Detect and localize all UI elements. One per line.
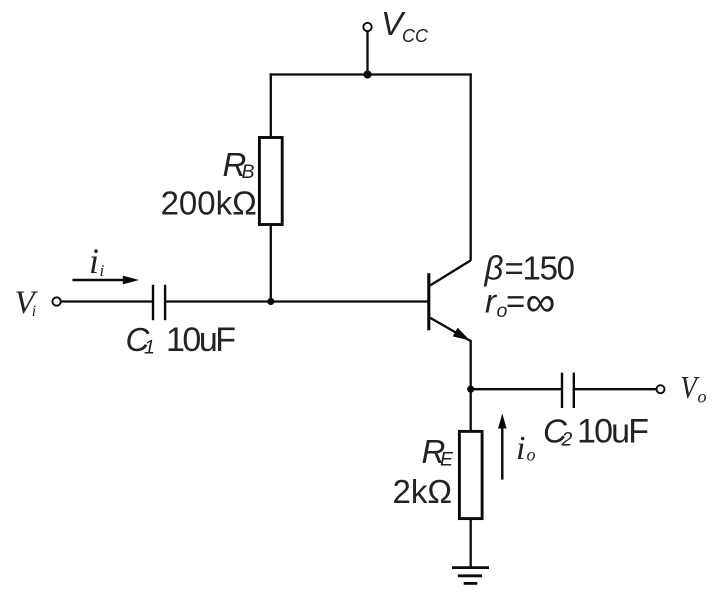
svg-text:∞: ∞ [526, 278, 556, 325]
svg-text:i: i [32, 303, 36, 320]
svg-text:o: o [698, 387, 707, 407]
svg-text:i: i [89, 241, 99, 281]
svg-text:β: β [484, 249, 504, 286]
svg-text:2: 2 [561, 429, 573, 451]
svg-text:200kΩ: 200kΩ [161, 184, 257, 221]
svg-text:2kΩ: 2kΩ [392, 473, 452, 510]
svg-text:10uF: 10uF [166, 321, 236, 359]
svg-text:o: o [527, 445, 536, 465]
svg-text:=: = [506, 283, 525, 320]
svg-text:CC: CC [402, 26, 429, 46]
svg-text:10uF: 10uF [577, 413, 649, 451]
svg-text:i: i [100, 261, 105, 280]
svg-text:E: E [440, 448, 454, 470]
svg-text:1: 1 [144, 337, 155, 359]
svg-text:B: B [242, 161, 255, 183]
svg-text:i: i [516, 430, 525, 467]
